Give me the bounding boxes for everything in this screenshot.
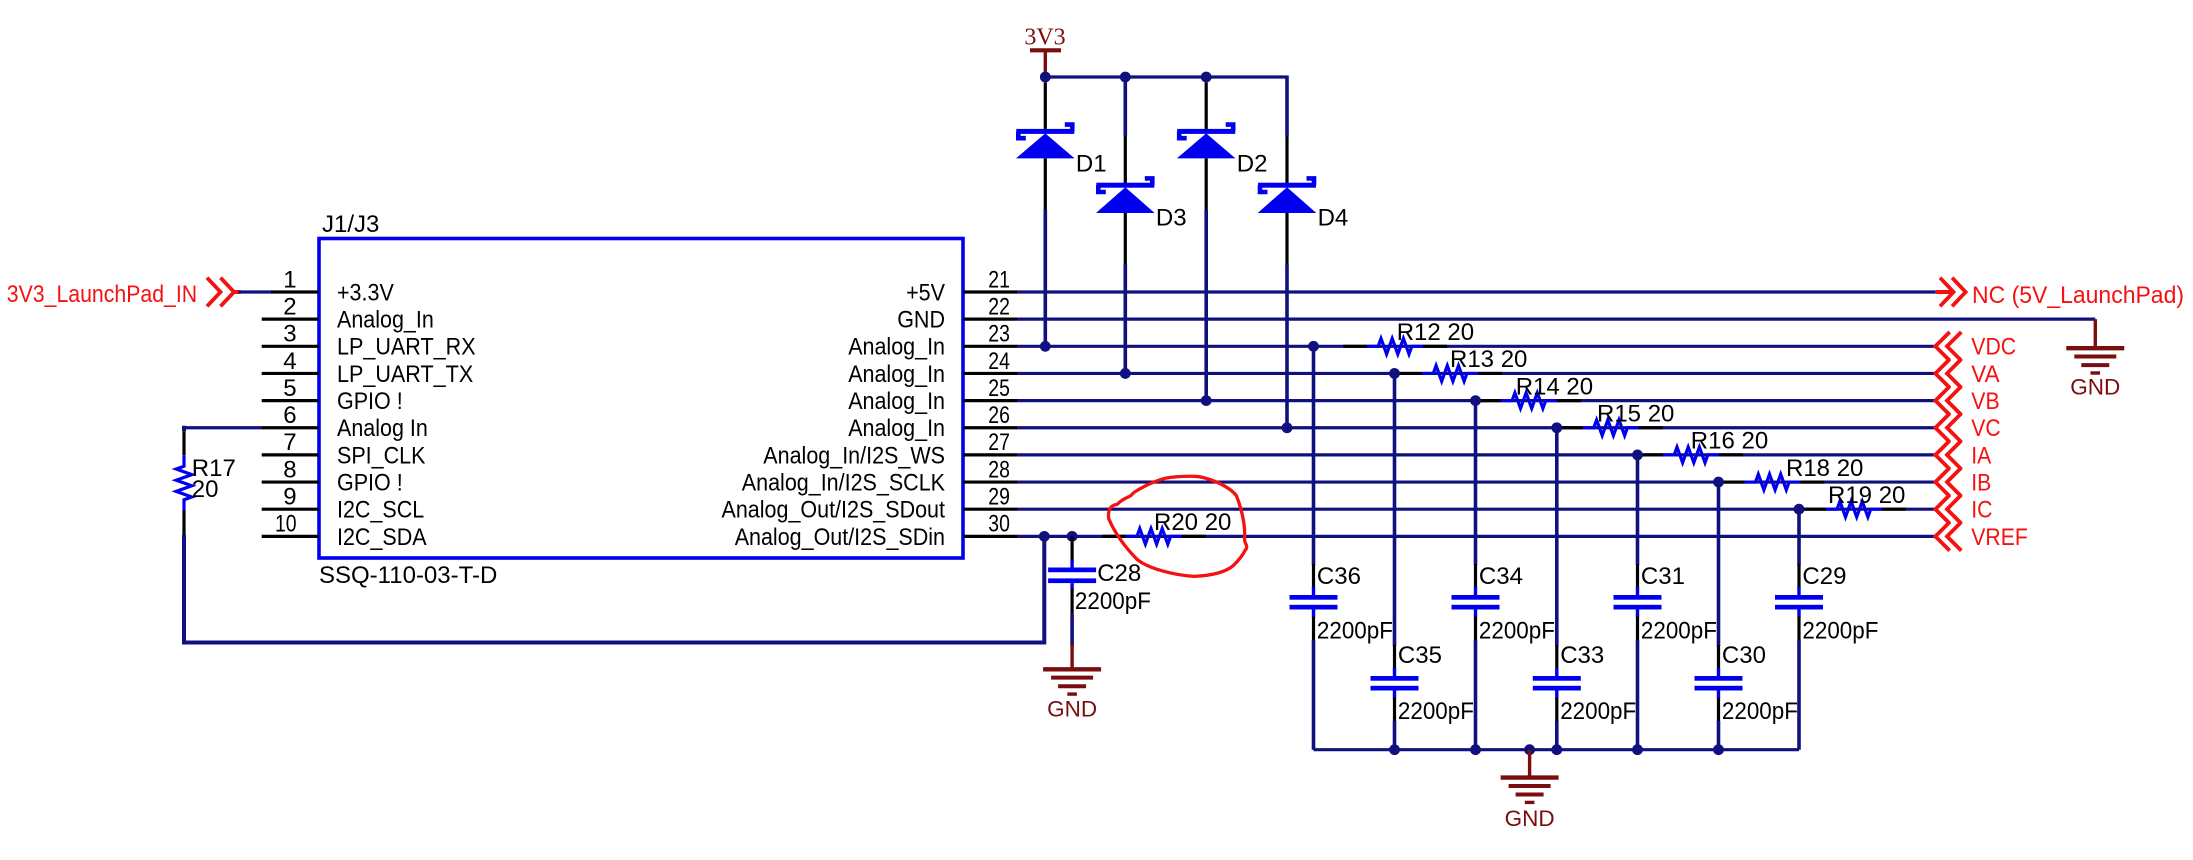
pin 21 stub	[963, 290, 1017, 293]
svg-text:5: 5	[283, 375, 296, 402]
svg-text:R19 20: R19 20	[1828, 482, 1905, 509]
junction D1 on pin23 line	[1040, 341, 1051, 352]
wire row 30 net VREF	[1017, 535, 1935, 538]
capacitor C35	[1393, 645, 1396, 670]
svg-text:R13 20: R13 20	[1450, 346, 1527, 373]
svg-text:IA: IA	[1971, 442, 1991, 469]
capacitor C36	[1312, 564, 1315, 589]
wire C30 column upper	[1717, 482, 1721, 646]
off-page connector arrow VC	[1935, 413, 1949, 442]
pin 28 stub	[963, 480, 1017, 483]
svg-text:LP_UART_RX: LP_UART_RX	[337, 334, 476, 361]
junction bottom bus gnd stub	[1524, 744, 1535, 755]
resistor R20	[1102, 535, 1126, 538]
pin 23 stub	[963, 345, 1017, 348]
junction D3 top	[1120, 72, 1131, 83]
pin 4 stub	[262, 372, 319, 375]
wire C34 column lower	[1474, 640, 1478, 750]
off-page connector arrow VB	[1935, 386, 1949, 415]
pin 1 lead	[271, 290, 319, 293]
svg-text:20: 20	[192, 476, 219, 503]
pin 8 stub	[262, 480, 319, 483]
pin 5 stub	[262, 399, 319, 402]
wire C36 column upper	[1312, 346, 1316, 565]
svg-text:Analog_In: Analog_In	[337, 307, 434, 334]
svg-text:8: 8	[283, 456, 296, 483]
svg-text:1: 1	[283, 266, 296, 293]
svg-text:30: 30	[988, 511, 1010, 538]
svg-text:+3.3V: +3.3V	[337, 279, 394, 306]
resistor R19	[1802, 508, 1826, 511]
svg-text:D2: D2	[1237, 151, 1268, 178]
junction bottom bus x=1394.5	[1389, 744, 1400, 755]
svg-text:27: 27	[988, 429, 1010, 456]
svg-text:3V3: 3V3	[1024, 25, 1065, 51]
diode D4	[1285, 136, 1288, 185]
svg-text:28: 28	[988, 456, 1010, 483]
pin 2 stub	[262, 318, 319, 321]
svg-text:R15 20: R15 20	[1597, 400, 1674, 427]
svg-text:VREF: VREF	[1971, 524, 2028, 551]
capacitor C33	[1555, 645, 1558, 670]
svg-text:NC (5V_LaunchPad): NC (5V_LaunchPad)	[1972, 282, 2184, 309]
wire pin1 to arrow	[239, 290, 272, 293]
svg-text:VB: VB	[1971, 388, 1999, 415]
svg-text:R12 20: R12 20	[1397, 319, 1474, 346]
svg-text:I2C_SCL: I2C_SCL	[337, 497, 424, 524]
junction C28 on pin30 line	[1067, 531, 1078, 542]
annotation hand-drawn red circle around R20	[1108, 476, 1246, 576]
junction on pin30 line at loop	[1039, 531, 1050, 542]
svg-text:C28: C28	[1097, 560, 1141, 587]
wire C31 column upper	[1636, 455, 1640, 565]
junction bottom bus x=1637.5	[1632, 744, 1643, 755]
svg-text:26: 26	[988, 402, 1010, 429]
svg-text:2200pF: 2200pF	[1317, 618, 1393, 645]
pin 9 stub	[262, 508, 319, 511]
pin 25 stub	[963, 399, 1017, 402]
svg-text:GND: GND	[897, 307, 945, 334]
off-page connector arrow VDC	[1935, 332, 1949, 361]
wire left vertical below R17	[182, 535, 186, 645]
wire C30 column lower	[1717, 721, 1721, 750]
wire D1 anode down	[1044, 210, 1048, 346]
svg-text:2200pF: 2200pF	[1479, 618, 1555, 645]
wire C35 column upper	[1393, 373, 1397, 646]
wire D3 top	[1124, 77, 1128, 137]
svg-text:GND: GND	[1047, 696, 1097, 721]
junction D3 on pin24 line	[1120, 368, 1131, 379]
wire left vertical above R17	[182, 426, 186, 431]
capacitor C31	[1636, 564, 1639, 589]
pin 29 stub	[963, 508, 1017, 511]
svg-text:23: 23	[988, 321, 1010, 348]
svg-text:2200pF: 2200pF	[1641, 618, 1717, 645]
svg-text:C35: C35	[1398, 642, 1442, 669]
wire GND drop	[2094, 319, 2097, 348]
svg-text:C29: C29	[1802, 563, 1846, 590]
svg-text:VDC: VDC	[1971, 334, 2016, 361]
wire D4 anode down	[1285, 264, 1289, 428]
svg-text:IC: IC	[1971, 497, 1992, 524]
svg-text:C33: C33	[1560, 642, 1604, 669]
svg-text:R14 20: R14 20	[1516, 373, 1593, 400]
svg-text:Analog_In: Analog_In	[848, 334, 945, 361]
wire row 26 net VC	[1017, 426, 1935, 429]
junction C30 column on pin28 line	[1713, 477, 1724, 488]
off-page connector arrow NC	[1936, 290, 1953, 294]
svg-text:9: 9	[283, 484, 296, 511]
power symbol 3V3	[1030, 48, 1061, 52]
pin 24 stub	[963, 372, 1017, 375]
svg-text:SPI_CLK: SPI_CLK	[337, 442, 425, 469]
svg-text:Analog_Out/I2S_SDout: Analog_Out/I2S_SDout	[722, 497, 946, 524]
wire GND row	[1017, 318, 2095, 321]
ground symbol bottom	[1501, 775, 1559, 779]
capacitor C34	[1474, 564, 1477, 589]
resistor R16	[1639, 453, 1663, 456]
svg-text:Analog_In: Analog_In	[848, 388, 945, 415]
wire C35 column lower	[1393, 721, 1397, 750]
wire row 29 net IC	[1017, 508, 1935, 511]
pin 10 stub	[262, 535, 319, 538]
svg-text:2: 2	[283, 293, 296, 320]
off-page connector arrow IC	[1935, 495, 1949, 524]
resistor R13	[1398, 372, 1422, 375]
junction C34 column on pin25 line	[1470, 395, 1481, 406]
wire up to pin30 line	[1042, 536, 1046, 644]
svg-text:22: 22	[988, 293, 1010, 320]
junction 3V3/D1	[1040, 72, 1051, 83]
svg-text:LP_UART_TX: LP_UART_TX	[337, 361, 473, 388]
pin 27 stub	[963, 453, 1017, 456]
svg-text:29: 29	[988, 484, 1010, 511]
diode D1	[1044, 82, 1047, 131]
junction D2 on pin25 line	[1201, 395, 1212, 406]
resistor R12	[1343, 345, 1367, 348]
wire row 25 net VB	[1017, 399, 1935, 402]
wire bottom of left loop	[182, 641, 1044, 645]
wire bottom ground stub	[1528, 750, 1531, 778]
capacitor C29	[1797, 564, 1800, 589]
wire C28 ground stub	[1070, 644, 1073, 669]
wire row 24 net VA	[1017, 372, 1935, 375]
off-page connector arrow VA	[1935, 359, 1949, 388]
resistor R17	[182, 431, 185, 455]
wire +5V row	[1017, 290, 1936, 293]
diode D3	[1124, 136, 1127, 185]
junction D2 top	[1201, 72, 1212, 83]
svg-text:GND: GND	[1505, 806, 1555, 831]
svg-text:Analog In: Analog In	[337, 415, 428, 442]
svg-text:2200pF: 2200pF	[1075, 588, 1151, 615]
svg-text:3V3_LaunchPad_IN: 3V3_LaunchPad_IN	[7, 281, 197, 308]
svg-text:D1: D1	[1076, 151, 1107, 178]
wire C33 column lower	[1555, 721, 1559, 750]
svg-text:R16 20: R16 20	[1691, 428, 1768, 455]
wire row 28 net IB	[1017, 480, 1935, 483]
junction C35 column on pin24 line	[1389, 368, 1400, 379]
pin 3 stub	[262, 345, 319, 348]
junction bottom bus x=1718.5	[1713, 744, 1724, 755]
pin 7 stub	[262, 453, 319, 456]
resistor R14	[1477, 399, 1501, 402]
connector J1/J3 body	[319, 239, 963, 559]
off-page connector arrow VREF	[1935, 522, 1949, 551]
pin 26 stub	[963, 426, 1017, 429]
ground symbol C28	[1043, 667, 1101, 671]
svg-text:4: 4	[283, 348, 296, 375]
svg-text:C30: C30	[1722, 642, 1766, 669]
svg-text:Analog_In: Analog_In	[848, 415, 945, 442]
svg-text:Analog_In: Analog_In	[848, 361, 945, 388]
svg-text:IB: IB	[1971, 469, 1991, 496]
wire C29 column lower	[1797, 640, 1801, 750]
pin 6 lead	[262, 426, 319, 429]
wire bottom ground bus	[1314, 748, 1800, 751]
wire pin6 to left corner	[182, 426, 262, 429]
junction bottom bus x=1556.8	[1551, 744, 1562, 755]
svg-text:R20 20: R20 20	[1154, 509, 1231, 536]
svg-text:GPIO !: GPIO !	[337, 388, 403, 415]
off-page connector arrow IA	[1935, 441, 1949, 470]
svg-text:VA: VA	[1971, 361, 1999, 388]
wire top bus	[1045, 75, 1287, 78]
junction C29 column on pin29 line	[1794, 504, 1805, 515]
svg-text:+5V: +5V	[906, 279, 945, 306]
junction C31 column on pin27 line	[1632, 450, 1643, 461]
svg-text:C36: C36	[1317, 563, 1361, 590]
diode D2	[1205, 82, 1208, 131]
svg-text:R18 20: R18 20	[1786, 455, 1863, 482]
svg-text:2200pF: 2200pF	[1802, 618, 1878, 645]
wire row 23 net VDC	[1017, 345, 1935, 348]
svg-text:SSQ-110-03-T-D: SSQ-110-03-T-D	[319, 562, 497, 589]
wire C29 column upper	[1797, 509, 1801, 565]
wire C33 column upper	[1555, 428, 1559, 646]
wire C34 column upper	[1474, 401, 1478, 565]
pin 22 stub	[963, 318, 1017, 321]
off-page connector arrow IB	[1935, 468, 1949, 497]
resistor R18	[1721, 480, 1745, 483]
svg-text:D3: D3	[1156, 205, 1187, 232]
svg-text:21: 21	[988, 266, 1010, 293]
pin 30 stub	[963, 535, 1017, 538]
svg-text:Analog_In/I2S_WS: Analog_In/I2S_WS	[763, 442, 945, 469]
svg-text:2200pF: 2200pF	[1398, 698, 1474, 725]
wire D3 anode down	[1124, 264, 1128, 373]
capacitor C28	[1070, 536, 1073, 562]
resistor R15	[1559, 426, 1583, 429]
svg-text:Analog_In/I2S_SCLK: Analog_In/I2S_SCLK	[742, 469, 945, 496]
svg-text:2200pF: 2200pF	[1722, 698, 1798, 725]
junction C36 column on pin23 line	[1308, 341, 1319, 352]
wire D2 anode down	[1204, 210, 1208, 401]
svg-text:10: 10	[275, 511, 297, 538]
svg-text:VC: VC	[1971, 415, 2000, 442]
wire C31 column lower	[1636, 640, 1640, 750]
wire D4 top	[1285, 76, 1289, 137]
wire C36 column lower	[1312, 640, 1316, 750]
wire C28 to ground	[1070, 614, 1074, 646]
ground symbol right	[2066, 346, 2124, 350]
svg-text:GPIO !: GPIO !	[337, 469, 403, 496]
svg-text:C31: C31	[1641, 563, 1685, 590]
junction bottom bus x=1475.5	[1470, 744, 1481, 755]
svg-text:GND: GND	[2070, 375, 2120, 400]
svg-text:6: 6	[283, 402, 296, 429]
svg-text:7: 7	[283, 429, 296, 456]
junction D4 on pin26 line	[1282, 422, 1293, 433]
svg-text:I2C_SDA: I2C_SDA	[337, 524, 427, 551]
svg-text:C34: C34	[1479, 563, 1523, 590]
svg-text:2200pF: 2200pF	[1560, 698, 1636, 725]
svg-text:J1/J3: J1/J3	[322, 211, 379, 238]
svg-text:D4: D4	[1318, 205, 1349, 232]
svg-text:3: 3	[283, 321, 296, 348]
svg-text:Analog_Out/I2S_SDin: Analog_Out/I2S_SDin	[735, 524, 945, 551]
svg-text:25: 25	[988, 375, 1010, 402]
capacitor C30	[1717, 645, 1720, 670]
wire row 27 net IA	[1017, 453, 1935, 456]
svg-text:24: 24	[988, 348, 1010, 375]
off-page connector arrow 3V3_LaunchPad_IN	[207, 278, 221, 307]
junction C33 column on pin26 line	[1551, 422, 1562, 433]
